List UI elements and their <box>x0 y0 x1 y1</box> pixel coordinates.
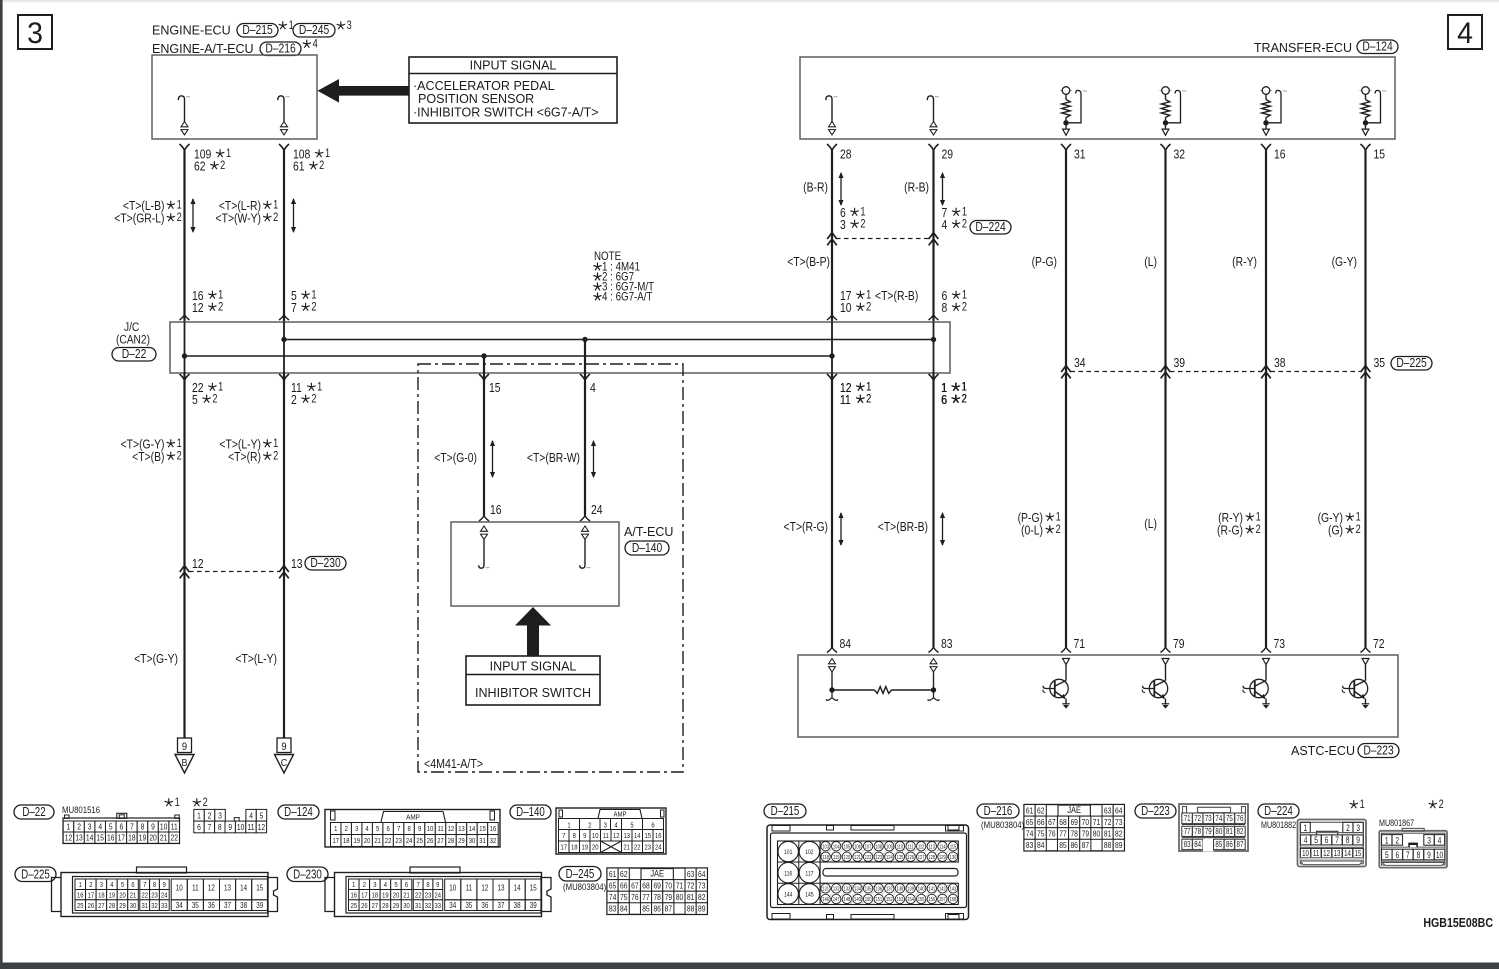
svg-text:28: 28 <box>840 147 852 161</box>
svg-text:19: 19 <box>353 838 360 846</box>
svg-text:139: 139 <box>907 886 914 893</box>
svg-text:7: 7 <box>291 301 297 315</box>
svg-text:7: 7 <box>208 822 212 832</box>
svg-text:126: 126 <box>907 854 914 861</box>
svg-text:123: 123 <box>875 854 882 861</box>
svg-text:10: 10 <box>592 832 599 840</box>
svg-text:1: 1 <box>177 438 182 450</box>
svg-text:INPUT SIGNAL: INPUT SIGNAL <box>470 57 557 72</box>
thick arrow from INPUT SIGNAL into ENGINE-ECU <box>318 79 410 103</box>
svg-text:78: 78 <box>1194 826 1201 836</box>
terminal fork below ENGINE-ECU pin 109/62 <box>180 144 190 151</box>
terminal fork below TRANSFER-ECU pin 32 <box>1161 144 1171 151</box>
svg-text:6: 6 <box>1395 850 1399 860</box>
svg-text:9: 9 <box>1356 835 1360 845</box>
svg-text:9: 9 <box>182 741 187 753</box>
svg-text:121: 121 <box>854 854 861 861</box>
output transistor inside ASTC-ECU at x=1266 <box>1263 659 1270 665</box>
junction dots upper CAN line <box>281 337 286 342</box>
svg-text:J/C: J/C <box>124 321 139 334</box>
svg-text:71: 71 <box>1184 813 1191 823</box>
twisted-pair arrow beside wire 15 <box>492 441 494 477</box>
svg-text:20: 20 <box>149 833 156 843</box>
svg-text:1: 1 <box>1385 835 1389 845</box>
svg-text:108: 108 <box>875 844 882 851</box>
svg-text:79: 79 <box>665 892 672 902</box>
svg-text:83: 83 <box>941 637 953 651</box>
svg-text:1: 1 <box>79 881 83 889</box>
svg-text:30: 30 <box>469 838 476 846</box>
svg-text:TRANSFER-ECU: TRANSFER-ECU <box>1254 40 1352 55</box>
svg-text:73: 73 <box>698 881 705 891</box>
svg-text:72: 72 <box>1373 637 1385 651</box>
svg-text:130: 130 <box>950 854 957 861</box>
svg-text:2: 2 <box>1256 524 1261 536</box>
svg-text:8: 8 <box>426 881 430 889</box>
svg-text:38: 38 <box>514 902 521 910</box>
internal ground stub below ASTC pin84 <box>827 691 838 700</box>
svg-text:C: C <box>281 757 287 769</box>
svg-text:4: 4 <box>313 39 318 51</box>
svg-text:80: 80 <box>1093 829 1100 839</box>
internal ground stub below ASTC pin83 <box>928 691 939 700</box>
svg-text:17: 17 <box>361 892 368 900</box>
svg-text:<T>(GR-L): <T>(GR-L) <box>114 211 164 225</box>
svg-text:2: 2 <box>77 822 81 832</box>
svg-text:8: 8 <box>218 822 222 832</box>
svg-text:8: 8 <box>1417 850 1421 860</box>
sheet number 4 <box>1448 15 1482 49</box>
dash-dot boundary box 4M41-A/T <box>418 364 683 772</box>
thick arrow from INHIBITOR SWITCH into A/T-ECU <box>515 607 551 656</box>
svg-text:29: 29 <box>119 902 126 910</box>
svg-text:19: 19 <box>109 892 116 900</box>
svg-text:D–224: D–224 <box>1264 805 1293 818</box>
svg-text:MU801516: MU801516 <box>62 804 100 815</box>
svg-text:2: 2 <box>1346 823 1350 833</box>
wire from ENGINE-ECU pin 108 to J/C CAN2 <box>283 151 285 323</box>
svg-text:21: 21 <box>403 892 410 900</box>
svg-text:16: 16 <box>1274 147 1286 161</box>
svg-text:1: 1 <box>962 290 967 302</box>
svg-text:25: 25 <box>351 902 358 910</box>
svg-text:AMP: AMP <box>614 811 627 819</box>
terminal fork entering J/C top at x=832 <box>827 315 837 321</box>
terminal fork at A/T-ECU pin24 <box>580 516 590 522</box>
internal pin symbol A/T-ECU pin16 <box>481 526 488 531</box>
svg-text:MU801867: MU801867 <box>1379 818 1414 828</box>
svg-text:(R-Y): (R-Y) <box>1232 255 1257 269</box>
svg-text:8: 8 <box>1346 835 1350 845</box>
svg-text:106: 106 <box>854 844 861 851</box>
INPUT SIGNAL callout box (accelerator pedal / inhibitor switch) <box>409 57 617 123</box>
svg-text:21: 21 <box>160 833 167 843</box>
svg-text:129: 129 <box>939 854 946 861</box>
svg-text:20: 20 <box>119 892 126 900</box>
svg-text:31: 31 <box>479 838 486 846</box>
svg-text:32: 32 <box>490 838 497 846</box>
svg-text:15: 15 <box>489 381 501 395</box>
svg-text:80: 80 <box>676 892 683 902</box>
svg-text:5: 5 <box>394 881 398 889</box>
svg-text:<4M41-A/T>: <4M41-A/T> <box>424 757 483 771</box>
svg-text:27: 27 <box>98 902 105 910</box>
svg-text:3: 3 <box>1427 835 1431 845</box>
svg-text:37: 37 <box>498 902 505 910</box>
pull-up resistor circuit inside TRANSFER-ECU above pin at x=1266 <box>1260 90 1272 92</box>
connector label D-225 <box>15 867 56 882</box>
svg-text:5: 5 <box>376 826 380 834</box>
in-line connector chevrons on wire 29 <box>929 233 939 246</box>
svg-text:3: 3 <box>347 20 352 32</box>
svg-text:63: 63 <box>687 869 694 879</box>
dashed connector line D-230 <box>189 571 279 573</box>
svg-text:19: 19 <box>581 844 588 852</box>
svg-text:68: 68 <box>642 881 649 891</box>
svg-text:70: 70 <box>1082 817 1089 827</box>
svg-text:61: 61 <box>293 159 305 173</box>
svg-text:75: 75 <box>620 892 627 902</box>
svg-text:39: 39 <box>256 902 263 910</box>
svg-text:1: 1 <box>218 290 223 302</box>
svg-text:2: 2 <box>273 212 278 224</box>
svg-text:11: 11 <box>840 393 851 407</box>
svg-text:12: 12 <box>448 826 455 834</box>
svg-text:D–225: D–225 <box>1396 355 1427 371</box>
svg-text:107: 107 <box>865 844 872 851</box>
svg-text:3: 3 <box>373 881 377 889</box>
svg-text:114: 114 <box>939 844 946 851</box>
svg-text:2: 2 <box>311 302 316 314</box>
svg-text:15: 15 <box>256 885 263 893</box>
internal pin symbol A/T-ECU pin24 <box>582 526 589 531</box>
svg-text:<T>(BR-B): <T>(BR-B) <box>878 520 928 534</box>
svg-text:29: 29 <box>942 147 954 161</box>
terminal fork leaving J/C bottom at x=832 <box>827 374 837 381</box>
svg-text:2: 2 <box>962 394 967 406</box>
svg-text:2: 2 <box>866 394 871 406</box>
svg-text:101: 101 <box>784 850 792 857</box>
svg-text:31: 31 <box>415 902 422 910</box>
svg-text:1: 1 <box>218 382 223 394</box>
svg-text:10: 10 <box>176 885 183 893</box>
svg-text:5: 5 <box>109 822 113 832</box>
svg-text:136: 136 <box>875 886 882 893</box>
svg-text:13: 13 <box>498 885 505 893</box>
svg-text:<T>(W-Y): <T>(W-Y) <box>216 211 262 225</box>
svg-text:18: 18 <box>571 844 578 852</box>
svg-text:2: 2 <box>1356 524 1361 536</box>
svg-text:4: 4 <box>384 881 388 889</box>
svg-text:1: 1 <box>226 148 231 160</box>
wire stub pin17 inside J/C <box>831 322 833 373</box>
svg-text:11: 11 <box>603 832 609 840</box>
svg-text:<T>(L-Y): <T>(L-Y) <box>235 652 277 666</box>
svg-text:135: 135 <box>865 886 872 893</box>
svg-text:12: 12 <box>208 885 215 893</box>
svg-text:5: 5 <box>630 822 634 830</box>
svg-text:15: 15 <box>644 832 651 840</box>
svg-text:72: 72 <box>1104 817 1111 827</box>
connector label D-216 with part number MU803804 <box>977 804 1019 818</box>
svg-text:11: 11 <box>438 826 444 834</box>
svg-text:2: 2 <box>208 811 212 821</box>
svg-text:24: 24 <box>591 503 603 517</box>
svg-text:134: 134 <box>854 886 861 893</box>
svg-text:17: 17 <box>118 833 125 843</box>
svg-text:1: 1 <box>311 290 316 302</box>
terminal fork at ASTC-ECU pin 84 <box>827 647 837 653</box>
svg-text:JAE: JAE <box>1067 806 1081 816</box>
svg-text:1: 1 <box>325 148 330 160</box>
svg-text:D–124: D–124 <box>284 806 313 819</box>
svg-text:11: 11 <box>466 885 473 893</box>
svg-text:1: 1 <box>1360 799 1365 811</box>
svg-text:26: 26 <box>427 838 434 846</box>
svg-text:9: 9 <box>1427 850 1431 860</box>
svg-text:89: 89 <box>1115 840 1122 850</box>
svg-text:1: 1 <box>1056 512 1061 524</box>
connector pinout D-230 (39 pin) <box>410 867 460 873</box>
svg-text:D–225: D–225 <box>21 868 50 881</box>
twisted-pair arrow beside wire 84 <box>840 513 842 545</box>
svg-text:116: 116 <box>784 871 792 878</box>
svg-text:7: 7 <box>397 826 401 834</box>
svg-text:39: 39 <box>530 902 537 910</box>
svg-text:30: 30 <box>403 902 410 910</box>
svg-text:MU801882: MU801882 <box>1261 820 1296 830</box>
svg-text:64: 64 <box>1115 806 1122 816</box>
svg-text:9: 9 <box>436 881 440 889</box>
terminal fork below TRANSFER-ECU pin 28 <box>827 144 837 151</box>
svg-text:ASTC-ECU: ASTC-ECU <box>1291 743 1355 758</box>
svg-text:20: 20 <box>592 844 599 852</box>
svg-text:<T>(B): <T>(B) <box>132 450 164 464</box>
svg-text:145: 145 <box>805 892 813 899</box>
svg-text:INHIBITOR SWITCH: INHIBITOR SWITCH <box>475 685 591 700</box>
svg-text:<T>(R-G): <T>(R-G) <box>784 520 829 534</box>
svg-text:24: 24 <box>655 844 662 852</box>
connector pinout D-22 variant *2 <box>193 799 200 806</box>
svg-text:62: 62 <box>1037 806 1044 816</box>
svg-text:12: 12 <box>481 885 488 893</box>
svg-text:75: 75 <box>1226 813 1233 823</box>
svg-text:29: 29 <box>393 902 400 910</box>
svg-text:8: 8 <box>153 881 157 889</box>
dashed connector line D-225 <box>1071 371 1162 373</box>
svg-text:38: 38 <box>240 902 247 910</box>
terminal fork below TRANSFER-ECU pin 29 <box>929 144 939 151</box>
svg-text:34: 34 <box>176 902 183 910</box>
svg-text:AMP: AMP <box>406 814 420 822</box>
svg-text:<T>(R-B): <T>(R-B) <box>875 289 918 303</box>
svg-text:1: 1 <box>273 438 278 450</box>
svg-text:(MU803804): (MU803804) <box>563 881 606 892</box>
ECU box A/T-ECU <box>451 522 619 606</box>
svg-text:36: 36 <box>481 902 488 910</box>
svg-text:74: 74 <box>609 892 616 902</box>
svg-text:21: 21 <box>623 844 630 852</box>
connector pinout D-124 (AMP 32 pin) <box>325 810 500 848</box>
svg-text:(R-G): (R-G) <box>1217 523 1243 537</box>
svg-text:32: 32 <box>425 902 432 910</box>
svg-text:1: 1 <box>197 811 201 821</box>
svg-text:13: 13 <box>623 832 630 840</box>
svg-text:1: 1 <box>317 382 322 394</box>
svg-text:23: 23 <box>151 892 158 900</box>
internal pin symbol ENGINE-ECU pin 109/62 <box>178 96 184 122</box>
svg-text:11: 11 <box>171 822 178 832</box>
svg-text:7: 7 <box>130 822 134 832</box>
svg-text:119: 119 <box>833 854 840 861</box>
svg-text:18: 18 <box>98 892 105 900</box>
svg-text:24: 24 <box>406 838 413 846</box>
svg-text:76: 76 <box>1237 813 1244 823</box>
svg-text:2: 2 <box>1395 835 1399 845</box>
svg-text:73: 73 <box>1115 817 1122 827</box>
svg-text:67: 67 <box>631 881 638 891</box>
svg-text:26: 26 <box>88 902 95 910</box>
svg-text:81: 81 <box>1226 826 1233 836</box>
svg-text:23: 23 <box>425 892 432 900</box>
svg-text:ENGINE-A/T-ECU: ENGINE-A/T-ECU <box>152 41 254 56</box>
svg-text:138: 138 <box>897 886 904 893</box>
svg-text:10: 10 <box>427 826 434 834</box>
svg-text:29: 29 <box>458 838 465 846</box>
svg-text:10: 10 <box>237 822 244 832</box>
svg-text:6: 6 <box>131 881 135 889</box>
svg-text:146: 146 <box>822 897 829 904</box>
svg-text:69: 69 <box>1070 817 1077 827</box>
svg-text:22: 22 <box>634 844 641 852</box>
svg-text:67: 67 <box>1048 817 1055 827</box>
wire stub pin16 inside J/C <box>184 322 186 373</box>
junction box J/C CAN2 D-22 <box>170 322 950 373</box>
terminal fork below TRANSFER-ECU pin 15 <box>1361 144 1371 151</box>
junction dots lower CAN line <box>182 353 187 358</box>
svg-text:6: 6 <box>651 822 655 830</box>
svg-text:4: 4 <box>1457 17 1473 50</box>
svg-text:2: 2 <box>363 881 367 889</box>
svg-text:81: 81 <box>687 892 694 902</box>
svg-text:D–215: D–215 <box>242 22 273 38</box>
twisted-pair arrow beside wire 28 <box>840 173 842 205</box>
svg-text:3: 3 <box>840 218 846 232</box>
svg-text:INPUT SIGNAL: INPUT SIGNAL <box>490 658 577 673</box>
svg-text:110: 110 <box>897 844 904 851</box>
svg-text:<T>(B-P): <T>(B-P) <box>787 255 830 269</box>
CAN bus upper line inside J/C <box>284 339 934 341</box>
svg-text:6: 6 <box>119 822 123 832</box>
svg-text:155: 155 <box>918 897 925 904</box>
svg-text:83: 83 <box>609 904 616 914</box>
svg-text:28: 28 <box>109 902 116 910</box>
wire TRANSFER pin32 to ASTC pin79 <box>1164 151 1166 648</box>
svg-text:10: 10 <box>160 822 167 832</box>
svg-text:4: 4 <box>1438 835 1442 845</box>
svg-text:2: 2 <box>962 302 967 314</box>
svg-text:154: 154 <box>907 897 914 904</box>
terminal fork at ASTC-ECU pin 73 <box>1261 647 1271 653</box>
wire J/C pin1 down to ASTC pin83 <box>932 373 934 647</box>
twisted-pair arrow beside wire 4 <box>593 441 595 477</box>
svg-text:12: 12 <box>192 557 204 571</box>
svg-text:22: 22 <box>170 833 177 843</box>
svg-text:1: 1 <box>567 822 571 830</box>
connector pinout D-224 variant *1 <box>1350 801 1357 808</box>
twisted-pair arrow beside wire 109 <box>192 199 194 232</box>
wire TRANSFER pin28 to J/C <box>831 151 833 323</box>
svg-text:(G): (G) <box>1328 523 1343 537</box>
svg-text:31: 31 <box>141 902 148 910</box>
svg-text:147: 147 <box>833 897 840 904</box>
svg-text:15: 15 <box>530 885 537 893</box>
svg-text:D–215: D–215 <box>771 805 800 818</box>
svg-text:2: 2 <box>177 451 182 463</box>
svg-text:88: 88 <box>687 904 694 914</box>
output transistor inside ASTC-ECU at x=1066 <box>1063 659 1070 665</box>
output transistor inside ASTC-ECU at x=1165.5 <box>1162 659 1169 665</box>
terminal fork below TRANSFER-ECU pin 31 <box>1061 144 1071 151</box>
svg-text:12: 12 <box>613 832 620 840</box>
svg-text:38: 38 <box>1274 356 1286 370</box>
svg-text:20: 20 <box>364 838 371 846</box>
pull-up resistor circuit inside TRANSFER-ECU above pin at x=1165.5 <box>1160 90 1172 92</box>
svg-text:104: 104 <box>833 844 840 851</box>
svg-text:(P-G): (P-G) <box>1032 255 1057 269</box>
svg-text:16: 16 <box>351 892 358 900</box>
svg-text:1: 1 <box>1356 512 1361 524</box>
svg-text:2: 2 <box>212 394 217 406</box>
svg-text:86: 86 <box>1070 840 1077 850</box>
svg-text:2: 2 <box>1056 524 1061 536</box>
svg-text:77: 77 <box>1184 826 1191 836</box>
svg-text:81: 81 <box>1104 829 1111 839</box>
svg-text:76: 76 <box>1048 829 1055 839</box>
svg-text:35: 35 <box>1374 356 1386 370</box>
connector label D-223 <box>1135 804 1176 818</box>
svg-text:22: 22 <box>415 892 422 900</box>
svg-text:62: 62 <box>620 869 627 879</box>
svg-text:9: 9 <box>418 826 422 834</box>
svg-text:8: 8 <box>573 832 577 840</box>
svg-text:72: 72 <box>687 881 694 891</box>
svg-text:3: 3 <box>1356 823 1360 833</box>
svg-text:124: 124 <box>886 854 893 861</box>
ECU box ENGINE-ECU <box>152 55 317 139</box>
svg-text:61: 61 <box>609 869 616 879</box>
svg-text:83: 83 <box>1026 840 1033 850</box>
connector label D-224 with part number MU801882 <box>1258 804 1299 818</box>
svg-text:142: 142 <box>939 886 946 893</box>
svg-text:2: 2 <box>89 881 93 889</box>
svg-text:10: 10 <box>1436 850 1444 860</box>
svg-text:84: 84 <box>1194 839 1201 849</box>
svg-text:16: 16 <box>655 832 662 840</box>
terminal fork below ENGINE-ECU pin 108/61 <box>279 144 289 151</box>
svg-text:4: 4 <box>366 826 370 834</box>
svg-text:D–245: D–245 <box>566 868 595 881</box>
svg-text:32: 32 <box>151 902 158 910</box>
svg-text:24: 24 <box>435 892 442 900</box>
svg-text:2: 2 <box>203 797 208 809</box>
svg-text:16: 16 <box>490 503 502 517</box>
svg-text:63: 63 <box>1104 806 1111 816</box>
svg-text:2: 2 <box>218 302 223 314</box>
terminal fork entering J/C top at x=284 <box>279 315 289 321</box>
svg-text:144: 144 <box>784 892 792 899</box>
svg-text:1: 1 <box>1303 823 1307 833</box>
